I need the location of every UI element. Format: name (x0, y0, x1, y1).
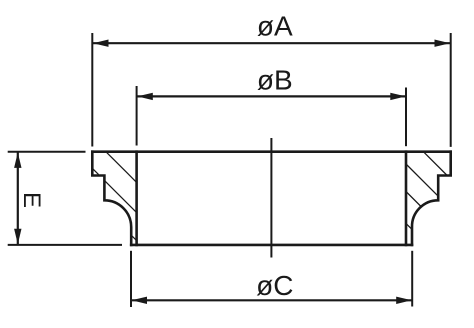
svg-text:E: E (18, 192, 45, 208)
svg-text:øB: øB (257, 65, 293, 96)
svg-text:øA: øA (257, 11, 293, 42)
svg-text:øC: øC (256, 270, 293, 301)
